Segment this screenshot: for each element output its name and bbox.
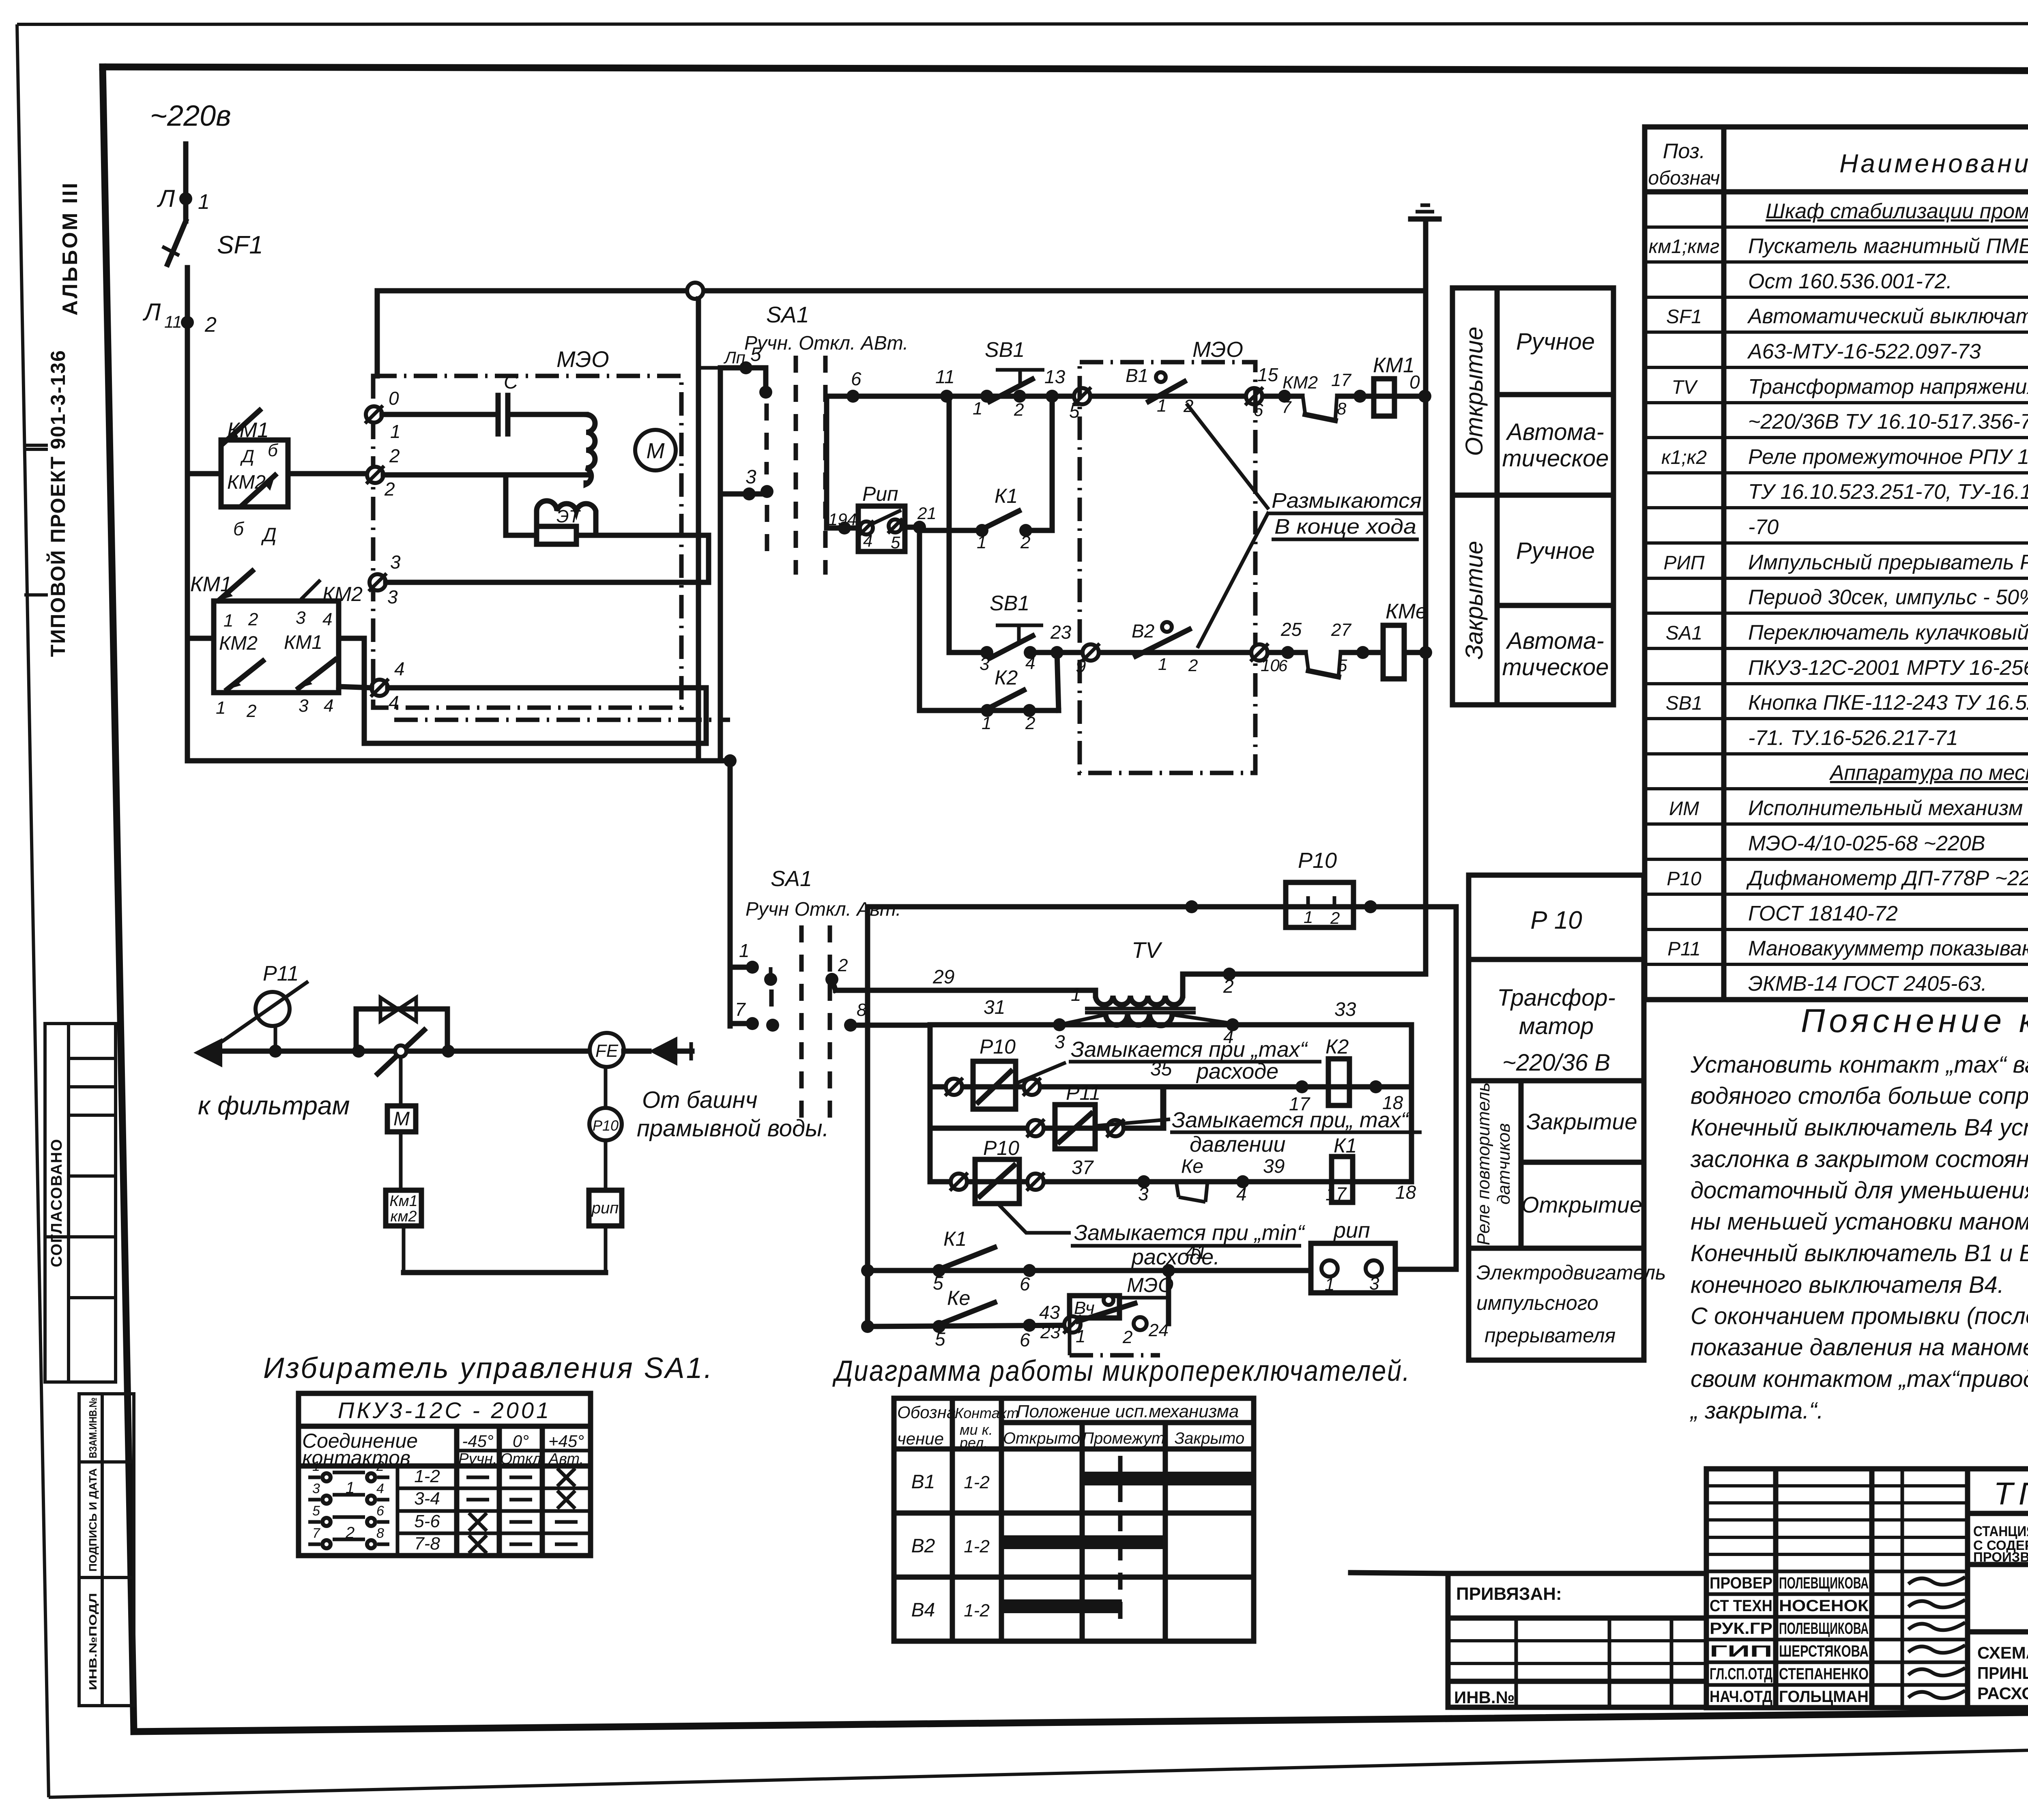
svg-text:Ручное: Ручное [1516,538,1595,564]
svg-text:прамывной воды.: прамывной воды. [637,1115,829,1142]
svg-text:23: 23 [1050,622,1072,643]
svg-text:2: 2 [1188,656,1198,675]
svg-text:ПОЛЕВЩИКОВА: ПОЛЕВЩИКОВА [1779,1574,1869,1592]
svg-text:НОСЕНОК: НОСЕНОК [1779,1597,1869,1615]
svg-text:тическое: тическое [1502,654,1609,680]
svg-text:Р10: Р10 [983,1137,1019,1159]
svg-text:1: 1 [216,698,226,718]
svg-text:37: 37 [1072,1157,1094,1178]
svg-text:~220в: ~220в [150,100,231,132]
svg-text:1: 1 [198,190,210,214]
svg-text:С окончанием промывки (после з: С окончанием промывки (после закрытия за… [1691,1303,2028,1329]
svg-text:КМ2: КМ2 [1283,373,1318,393]
svg-text:НАЧ.ОТД: НАЧ.ОТД [1710,1688,1772,1706]
svg-text:МЭО: МЭО [1192,337,1243,362]
svg-text:Поз.: Поз. [1663,140,1706,163]
svg-text:8: 8 [1337,399,1347,418]
svg-text:Закрытие: Закрытие [1461,541,1488,660]
svg-text:10: 10 [1261,656,1280,675]
svg-text:6: 6 [1020,1273,1030,1294]
svg-text:СТ ТЕХН: СТ ТЕХН [1710,1597,1772,1615]
svg-text:ГЛ.СП.ОТД: ГЛ.СП.ОТД [1710,1665,1772,1683]
svg-text:3: 3 [1138,1183,1149,1204]
svg-text:ВЗАМ.ИНВ.№: ВЗАМ.ИНВ.№ [87,1397,99,1458]
svg-text:4: 4 [394,658,405,679]
svg-text:Р10: Р10 [593,1117,619,1134]
svg-text:Открыто: Открыто [1003,1429,1080,1447]
svg-text:Трансформатор напряжения ТБС3-: Трансформатор напряжения ТБС3-0ю [1748,375,2028,399]
svg-text:23: 23 [1040,1322,1060,1342]
svg-text:Пускатель магнитный ПМЕ-114: Пускатель магнитный ПМЕ-114 [1748,234,2028,258]
svg-text:Размыкаются: Размыкаются [1272,489,1422,513]
svg-text:2: 2 [1122,1327,1132,1347]
svg-text:ПОДПИСЬ И ДАТА: ПОДПИСЬ И ДАТА [87,1468,99,1571]
svg-text:РАСХОДА ПРОМЫВНОЙ ВОДЫ.: РАСХОДА ПРОМЫВНОЙ ВОДЫ. [1977,1683,2028,1703]
svg-text:1-2: 1-2 [964,1537,990,1556]
svg-text:6: 6 [1278,657,1288,675]
svg-text:5: 5 [1338,656,1347,675]
svg-text:ГИП: ГИП [1710,1642,1772,1660]
svg-text:Переключатель кулачковый.: Переключатель кулачковый. [1748,621,2028,644]
svg-text:3: 3 [745,466,756,488]
svg-text:показание давления на манометр: показание давления на манометре повышает… [1691,1334,2028,1361]
svg-text:4: 4 [1025,653,1035,673]
svg-text:Р 10: Р 10 [1530,906,1582,934]
svg-text:Лп: Лп [723,348,745,367]
svg-text:СТАНЦИЯ ОБЕЗЖЕЛЕЗИВАНИЯ ВОДЫ П: СТАНЦИЯ ОБЕЗЖЕЛЕЗИВАНИЯ ВОДЫ ПОДЗЕМНЫХ И… [1973,1524,2028,1539]
svg-text:4: 4 [1236,1183,1247,1204]
svg-text:0: 0 [389,388,399,409]
svg-text:Замыкается при „min“: Замыкается при „min“ [1074,1221,1306,1245]
svg-text:Конечный выключатель В1 и В2 р: Конечный выключатель В1 и В2 расмыкается… [1691,1240,2028,1266]
svg-text:Р10: Р10 [980,1035,1016,1058]
svg-text:3: 3 [296,608,306,628]
svg-text:4: 4 [389,692,399,713]
svg-text:+45°: +45° [548,1432,584,1451]
svg-text:SA1: SA1 [766,302,809,327]
svg-text:3: 3 [1369,1274,1379,1294]
svg-text:Автома-: Автома- [1506,419,1604,445]
svg-text:Р10: Р10 [1667,868,1701,890]
svg-text:КМ1: КМ1 [284,632,322,653]
svg-text:ИНВ.№: ИНВ.№ [1454,1688,1515,1707]
svg-text:1-2: 1-2 [964,1601,990,1620]
svg-text:SA1: SA1 [1666,622,1703,644]
svg-text:М: М [647,439,665,463]
svg-text:1: 1 [312,1459,320,1474]
svg-text:К2: К2 [995,666,1018,689]
svg-text:рел.: рел. [959,1434,988,1451]
svg-text:б: б [233,518,245,539]
svg-text:Ке: Ке [947,1287,970,1309]
svg-text:Р11: Р11 [1667,938,1701,960]
svg-text:2: 2 [248,610,258,629]
svg-text:1: 1 [1157,396,1167,416]
svg-text:Наименование: Наименование [1839,149,2028,178]
svg-text:3: 3 [299,696,309,716]
svg-text:8: 8 [376,1526,384,1541]
svg-text:5: 5 [750,344,761,365]
svg-text:~220/36 В: ~220/36 В [1502,1050,1610,1076]
svg-text:СОГЛАСОВАНО: СОГЛАСОВАНО [48,1138,65,1267]
svg-text:2: 2 [204,313,217,337]
svg-text:2: 2 [838,955,848,975]
svg-text:1: 1 [1325,1275,1334,1294]
svg-text:ПКУ3-12С - 2001: ПКУ3-12С - 2001 [338,1397,551,1423]
svg-text:Автома-: Автома- [1506,628,1604,654]
svg-text:Избиратель управления SA1.: Избиратель управления SA1. [263,1352,714,1384]
svg-text:РИП: РИП [1663,552,1704,574]
svg-text:Ке: Ке [1181,1156,1203,1177]
svg-text:13: 13 [1044,366,1066,387]
svg-text:4: 4 [376,1481,384,1496]
svg-text:2: 2 [345,1524,354,1542]
svg-text:достаточный для уменьшения дав: достаточный для уменьшения давления до в… [1691,1177,2028,1204]
svg-text:ПОЛЕВЩИКОВА: ПОЛЕВЩИКОВА [1779,1620,1869,1638]
svg-text:2: 2 [1025,713,1035,733]
svg-text:В1: В1 [1126,365,1148,386]
svg-text:1: 1 [1076,1326,1085,1346]
svg-text:Км1: Км1 [389,1193,418,1210]
svg-text:Шкаф стабилизации промывку шсп: Шкаф стабилизации промывку шсп [1766,200,2028,223]
svg-text:2: 2 [1223,976,1234,997]
svg-text:21: 21 [917,504,937,523]
svg-text:СТЕПАНЕНКО: СТЕПАНЕНКО [1779,1665,1869,1683]
svg-text:1: 1 [1158,655,1167,674]
svg-text:7: 7 [312,1526,320,1541]
svg-text:Откл: Откл [501,1451,541,1468]
svg-text:27: 27 [1331,620,1351,640]
svg-text:В4: В4 [911,1599,935,1621]
svg-text:2: 2 [246,701,256,721]
svg-text:водяного столба больше сопроти: водяного столба больше сопротивления фил… [1691,1083,2028,1109]
svg-text:31: 31 [984,997,1005,1018]
svg-text:7-8: 7-8 [414,1534,440,1554]
svg-text:3: 3 [387,586,398,607]
svg-text:9: 9 [1076,655,1086,676]
svg-text:11: 11 [935,366,955,387]
svg-text:В2: В2 [911,1535,935,1557]
svg-text:В конце хода: В конце хода [1274,515,1416,539]
svg-text:КМ1: КМ1 [227,419,269,442]
svg-text:1: 1 [346,1479,354,1497]
svg-text:2: 2 [389,445,400,466]
svg-text:43: 43 [1039,1302,1060,1323]
svg-text:FЕ: FЕ [595,1041,619,1061]
svg-text:Мановакуумметр показывающий: Мановакуумметр показывающий [1748,937,2028,960]
svg-text:своим контактом „max“приводит: своим контактом „max“приводит затвор в п… [1691,1366,2028,1392]
svg-text:Р10: Р10 [1298,848,1337,873]
svg-text:~220/36В ТУ 16.10-517.356-70: ~220/36В ТУ 16.10-517.356-70 [1748,410,2028,434]
svg-text:Д: Д [261,524,277,546]
svg-text:б: б [268,440,279,460]
svg-text:-71. ТУ.16-526.217-71: -71. ТУ.16-526.217-71 [1748,726,1958,750]
svg-text:Авт.: Авт. [548,1451,584,1468]
svg-text:Аппаратура по месту.: Аппаратура по месту. [1829,761,2028,785]
svg-text:рип: рип [591,1199,619,1217]
svg-text:ТУ 16.10.523.251-70, ТУ-16.10.: ТУ 16.10.523.251-70, ТУ-16.10.523.020- [1748,480,2028,504]
svg-text:ПРИВЯЗАН:: ПРИВЯЗАН: [1456,1584,1562,1604]
svg-text:Импульсный прерыватель РИП-2: Импульсный прерыватель РИП-2 [1748,551,2028,574]
svg-text:АЛЬБОМ III: АЛЬБОМ III [58,181,82,315]
svg-text:Положение исп.механизма: Положение исп.механизма [1016,1401,1239,1421]
svg-text:41: 41 [1185,1242,1207,1263]
svg-text:5: 5 [312,1503,320,1519]
svg-text:К1: К1 [943,1228,967,1250]
svg-text:ТП 901-3-138: ТП 901-3-138 [1994,1476,2028,1511]
svg-text:Реле повторитель: Реле повторитель [1474,1082,1493,1245]
svg-text:11: 11 [164,312,182,331]
svg-text:2: 2 [376,1459,384,1474]
svg-text:4: 4 [863,531,872,550]
svg-text:2: 2 [1020,532,1030,552]
svg-text:ПКУ3-12С-2001 МРТУ 16-256.047-: ПКУ3-12С-2001 МРТУ 16-256.047-67 [1748,656,2028,680]
svg-text:1: 1 [390,421,401,442]
svg-text:7: 7 [735,999,746,1020]
svg-text:3: 3 [1055,1031,1065,1052]
svg-text:ЭТ: ЭТ [556,507,581,526]
svg-text:км2: км2 [390,1208,417,1225]
svg-text:ПРОИЗВОДИТЕЛЬНОСТЬЮ 40 ТЫС. М3: ПРОИЗВОДИТЕЛЬНОСТЬЮ 40 ТЫС. М3/СУТКИ [1973,1550,2028,1565]
svg-text:Ручн. Откл. АВт.: Ручн. Откл. АВт. [744,333,908,354]
svg-text:ИМ: ИМ [1669,798,1699,820]
svg-text:Ручное: Ручное [1516,328,1595,355]
svg-text:Рип: Рип [862,483,898,505]
svg-text:ТИПОВОЙ ПРОЕКТ 901-3-136: ТИПОВОЙ ПРОЕКТ 901-3-136 [46,350,69,657]
svg-text:Закрыто: Закрыто [1175,1429,1244,1447]
svg-text:к фильтрам: к фильтрам [198,1091,350,1120]
svg-text:А63-МТУ-16-522.097-73: А63-МТУ-16-522.097-73 [1747,340,1981,363]
svg-text:2: 2 [1014,400,1024,420]
svg-text:18: 18 [1395,1182,1416,1203]
svg-text:импульсного: импульсного [1476,1292,1598,1314]
svg-text:Замыкается при„ max“: Замыкается при„ max“ [1172,1108,1409,1132]
svg-text:SB1: SB1 [1666,693,1703,714]
svg-text:1: 1 [223,611,233,631]
svg-text:датчиков: датчиков [1494,1123,1514,1205]
svg-text:РУК.ГР: РУК.ГР [1710,1620,1772,1638]
svg-text:ИНВ.№ПОДЛ: ИНВ.№ПОДЛ [87,1593,99,1690]
svg-text:0: 0 [1409,371,1420,393]
svg-text:СХЕМА ЭЛЕКТРИЧЕСКАЯ: СХЕМА ЭЛЕКТРИЧЕСКАЯ [1977,1643,2028,1662]
svg-text:1-2: 1-2 [964,1472,990,1492]
svg-text:КМе: КМе [1386,600,1427,623]
svg-text:5-6: 5-6 [414,1511,440,1531]
svg-text:2: 2 [1330,908,1340,927]
svg-text:ГОСТ 18140-72: ГОСТ 18140-72 [1748,902,1898,925]
svg-text:„ закрыта.“.: „ закрыта.“. [1689,1397,1824,1424]
svg-text:Р11: Р11 [1066,1082,1100,1104]
svg-text:К1: К1 [995,485,1018,507]
svg-text:SF1: SF1 [217,231,263,259]
svg-text:КМ2: КМ2 [322,583,363,605]
svg-text:33: 33 [1334,999,1356,1020]
svg-text:TV: TV [1671,377,1698,398]
svg-text:Диаграмма работы микропереключ: Диаграмма работы микропереключателей. [832,1355,1411,1387]
svg-text:1: 1 [1304,908,1313,927]
svg-text:К1: К1 [1334,1134,1357,1157]
svg-text:рип: рип [1333,1218,1370,1243]
svg-text:Контакт: Контакт [955,1405,1019,1421]
svg-text:Пояснение к схеме.: Пояснение к схеме. [1801,1002,2028,1039]
svg-text:17: 17 [1331,370,1351,390]
svg-text:3: 3 [980,654,990,674]
svg-text:Исполнительный механизм: Исполнительный механизм [1748,796,2023,820]
svg-text:М: М [393,1108,410,1130]
svg-text:Период 30сек, импульс - 50%: Период 30сек, импульс - 50% [1748,586,2028,609]
svg-text:Р11: Р11 [263,962,299,985]
svg-text:давлении: давлении [1190,1132,1286,1157]
svg-text:ГОЛЬЦМАН: ГОЛЬЦМАН [1779,1688,1869,1706]
svg-text:тическое: тическое [1502,445,1609,472]
svg-text:Ост 160.536.001-72.: Ост 160.536.001-72. [1748,270,1952,293]
svg-text:В2: В2 [1132,620,1154,642]
svg-text:3: 3 [312,1481,320,1496]
svg-text:Дифманометр ДП-778Р ~220В: Дифманометр ДП-778Р ~220В [1746,867,2028,890]
svg-text:Установить контакт „max“ вакуу: Установить контакт „max“ вакуумметра Р11… [1690,1052,2028,1078]
svg-text:матор: матор [1519,1013,1594,1039]
svg-text:к1;к2: к1;к2 [1661,447,1707,468]
svg-text:194: 194 [828,510,857,529]
svg-text:Открытие: Открытие [1521,1192,1642,1217]
svg-text:Конечный выключатель В4 устано: Конечный выключатель В4 установить так, … [1691,1114,2028,1141]
svg-text:3: 3 [390,552,401,573]
svg-text:ны меньшей установки манометра: ны меньшей установки манометра „max.“ [1691,1208,2028,1235]
svg-text:Кнопка ПКЕ-112-243 ТУ 16.526.2: Кнопка ПКЕ-112-243 ТУ 16.526.216- [1748,691,2028,715]
svg-text:ПРОВЕР: ПРОВЕР [1710,1574,1772,1592]
svg-text:расходе: расходе [1196,1059,1278,1084]
svg-text:МЭО-4/10-025-68 ~220В: МЭО-4/10-025-68 ~220В [1748,832,1985,855]
svg-text:обознач: обознач [1648,167,1720,189]
svg-text:С: С [504,371,518,393]
svg-text:Промежут: Промежут [1082,1429,1165,1447]
svg-text:3-4: 3-4 [414,1489,440,1509]
svg-text:-70: -70 [1748,515,1779,539]
svg-text:Ручн.: Ручн. [458,1451,497,1468]
svg-text:Автоматический выключатель: Автоматический выключатель [1747,305,2028,328]
svg-text:МЭО: МЭО [556,346,609,372]
svg-text:29: 29 [932,966,954,988]
svg-text:конечного выключателя В4.: конечного выключателя В4. [1691,1272,2004,1298]
svg-text:Обозна: Обозна [897,1403,956,1422]
svg-text:КМ2: КМ2 [219,633,258,654]
svg-text:1: 1 [973,399,982,419]
svg-text:чение: чение [897,1429,944,1448]
svg-text:1: 1 [739,940,750,961]
svg-text:ПРИНЦИПИАЛЬНАЯ СТАБИЛИЗАЦИИ: ПРИНЦИПИАЛЬНАЯ СТАБИЛИЗАЦИИ [1977,1663,2028,1683]
svg-text:SВ1: SВ1 [990,592,1029,615]
svg-text:5: 5 [935,1329,945,1350]
svg-text:2: 2 [384,479,395,500]
svg-text:Л: Л [157,185,175,212]
svg-text:КМ1: КМ1 [1373,354,1415,377]
svg-text:4: 4 [322,610,332,629]
svg-text:Замыкается при „max“: Замыкается при „max“ [1071,1037,1308,1062]
svg-text:7: 7 [1282,397,1292,416]
svg-text:1: 1 [982,713,991,733]
svg-text:Реле промежуточное РПУ 1-363: Реле промежуточное РПУ 1-363 [1748,445,2028,469]
svg-text:1: 1 [1071,984,1081,1005]
svg-text:ШЕРСТЯКОВА: ШЕРСТЯКОВА [1779,1642,1869,1660]
svg-text:Л: Л [142,298,161,326]
svg-text:15: 15 [1257,364,1278,385]
svg-text:В1: В1 [911,1471,935,1493]
svg-text:0°: 0° [513,1432,529,1451]
svg-text:Открытие: Открытие [1461,326,1488,456]
svg-text:ЭКМВ-14 ГОСТ 2405-63.: ЭКМВ-14 ГОСТ 2405-63. [1748,972,1987,996]
svg-text:SF1: SF1 [1666,306,1702,328]
svg-text:6: 6 [851,368,861,389]
svg-text:-45°: -45° [462,1432,494,1451]
svg-text:Трансфор-: Трансфор- [1497,985,1616,1011]
svg-text:Закрытие: Закрытие [1526,1109,1637,1134]
svg-text:39: 39 [1263,1156,1285,1177]
svg-text:прерывателя: прерывателя [1484,1324,1616,1347]
svg-text:24: 24 [1148,1320,1169,1340]
svg-text:заслонка в закрытом состоянии: заслонка в закрытом состоянии пропускала… [1690,1146,2028,1172]
svg-text:К2: К2 [1326,1035,1349,1058]
svg-text:5: 5 [933,1273,943,1294]
svg-text:4: 4 [324,696,333,716]
svg-text:5: 5 [891,533,900,552]
svg-text:SВ1: SВ1 [985,338,1025,362]
svg-text:6: 6 [1020,1329,1030,1350]
svg-text:25: 25 [1280,619,1302,640]
svg-text:6: 6 [376,1503,384,1519]
svg-text:От башнч: От башнч [642,1087,758,1113]
svg-text:ТV: ТV [1132,937,1162,963]
svg-text:км1;кмг: км1;кмг [1649,236,1720,258]
svg-text:Электродвигатель: Электродвигатель [1476,1261,1666,1284]
svg-text:1: 1 [977,532,986,552]
svg-text:Д: Д [240,446,254,466]
svg-text:SА1: SА1 [771,867,812,891]
svg-text:1-2: 1-2 [414,1466,440,1486]
